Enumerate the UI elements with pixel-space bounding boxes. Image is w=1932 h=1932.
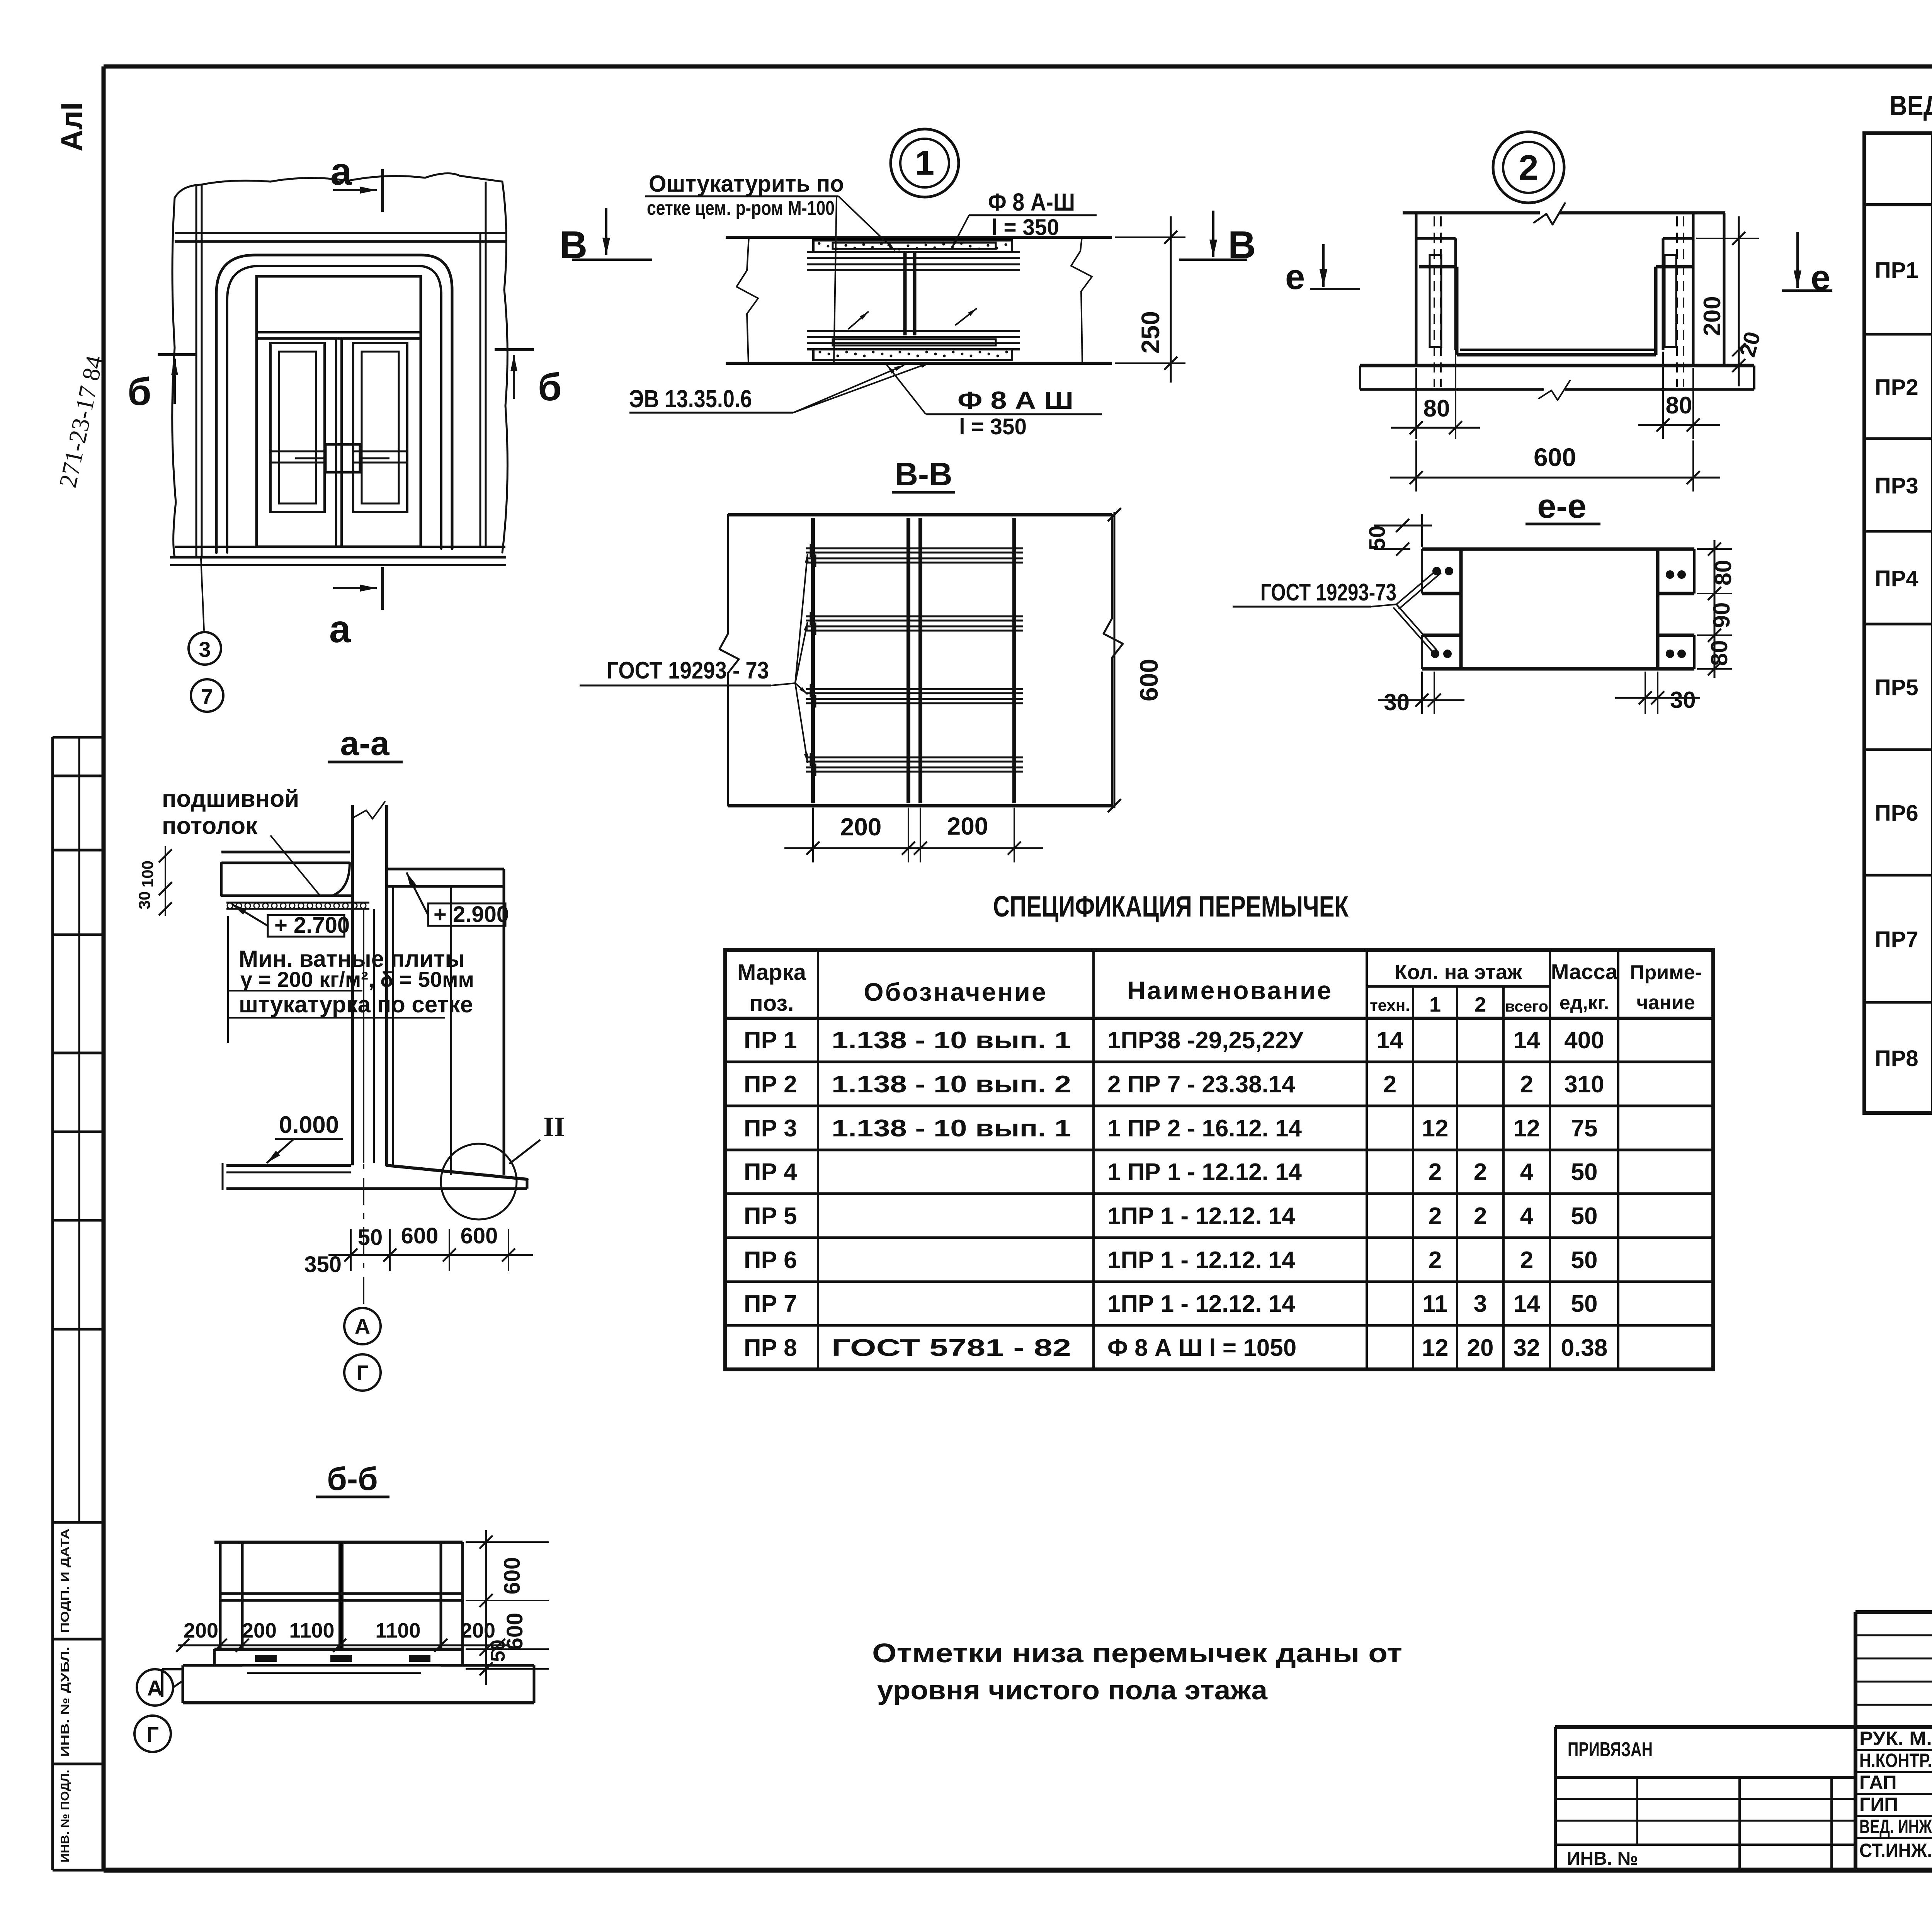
node 2 floor slab [1360, 364, 1754, 367]
door leaves [335, 338, 337, 547]
node 2 bubble [1493, 132, 1564, 203]
svg-text:поз.: поз. [750, 991, 794, 1016]
door surround arcs [216, 255, 452, 553]
svg-text:80: 80 [1666, 392, 1692, 419]
svg-text:12: 12 [1422, 1115, 1449, 1142]
svg-text:ГАП: ГАП [1859, 1772, 1897, 1793]
svg-text:80: 80 [1710, 560, 1736, 586]
svg-text:20: 20 [1467, 1335, 1494, 1361]
svg-text:0.000: 0.000 [279, 1112, 339, 1138]
svg-text:2: 2 [1520, 1247, 1533, 1274]
node 1 bottom flange [807, 330, 1020, 332]
svg-text:1.138 - 10 вып. 1: 1.138 - 10 вып. 1 [832, 1027, 1071, 1054]
svg-text:ПР 6: ПР 6 [744, 1247, 797, 1274]
B-B dims 200 [812, 808, 814, 862]
svg-text:ГОСТ 19293-73: ГОСТ 19293-73 [1260, 579, 1396, 606]
svg-text:12: 12 [1422, 1335, 1449, 1361]
e-e dim 50 [1421, 514, 1423, 547]
svg-text:14: 14 [1514, 1291, 1540, 1317]
svg-text:1ПР 1 - 12.12. 14: 1ПР 1 - 12.12. 14 [1107, 1203, 1295, 1230]
svg-text:400: 400 [1564, 1027, 1604, 1054]
svg-text:ПРИВЯЗАН: ПРИВЯЗАН [1568, 1738, 1653, 1761]
svg-text:ПР 2: ПР 2 [744, 1071, 797, 1098]
svg-text:ИНВ. №: ИНВ. № [1567, 1849, 1638, 1869]
svg-text:Обозначение: Обозначение [864, 978, 1047, 1006]
svg-text:ИНВ. № ПОДЛ.: ИНВ. № ПОДЛ. [59, 1770, 71, 1862]
svg-text:Наименование: Наименование [1127, 976, 1333, 1005]
svg-text:350: 350 [304, 1252, 342, 1277]
svg-text:75: 75 [1571, 1115, 1598, 1142]
door elevation rough wall outline [175, 173, 507, 553]
svg-text:а: а [329, 607, 351, 651]
a-a axis [363, 1128, 364, 1311]
svg-text:14: 14 [1514, 1027, 1540, 1054]
a-a right wall [387, 868, 504, 871]
svg-text:ВЕД. ИНЖ: ВЕД. ИНЖ [1859, 1816, 1932, 1837]
svg-text:50: 50 [1365, 526, 1390, 551]
svg-text:ГОСТ 19293 - 73: ГОСТ 19293 - 73 [607, 657, 769, 684]
door top lintel lines [175, 232, 505, 234]
svg-text:600: 600 [1534, 443, 1576, 471]
svg-text:ЭВ 13.35.0.6: ЭВ 13.35.0.6 [629, 385, 752, 413]
svg-text:200: 200 [840, 813, 882, 841]
svg-text:штукатурка по сетке: штукатурка по сетке [239, 992, 473, 1017]
svg-text:2: 2 [1475, 993, 1486, 1016]
svg-text:А: А [355, 1314, 370, 1338]
node 1 wall lines [726, 236, 1112, 239]
b-b shelf [220, 1592, 463, 1595]
svg-text:Отметки низа перемычек даны от: Отметки низа перемычек даны от [872, 1638, 1402, 1668]
b-b sill hatch [255, 1655, 277, 1662]
svg-text:4: 4 [1520, 1203, 1534, 1230]
section mark b left [158, 353, 196, 356]
svg-text:1100: 1100 [375, 1619, 420, 1642]
svg-text:1ПР38 -29,25,22У: 1ПР38 -29,25,22У [1107, 1027, 1304, 1054]
svg-text:ПР2: ПР2 [1875, 375, 1918, 400]
a-a mark +2.700 [268, 915, 344, 937]
section mark a top [381, 169, 384, 212]
spec table grid [725, 950, 1713, 1369]
node 2 U channel [1419, 265, 1457, 269]
svg-text:В: В [560, 223, 587, 267]
svg-text:50: 50 [1571, 1203, 1598, 1230]
svg-text:30: 30 [135, 891, 153, 910]
node 1 web [903, 252, 907, 335]
B-B bars [806, 548, 1023, 549]
node 1 lintel top flange [813, 240, 1012, 252]
svg-text:600: 600 [500, 1557, 525, 1595]
svg-text:30: 30 [1670, 687, 1696, 713]
svg-text:Масса: Масса [1551, 959, 1618, 984]
title block main grid [1855, 1610, 1932, 1614]
svg-text:1.138 - 10 вып. 2: 1.138 - 10 вып. 2 [832, 1071, 1071, 1098]
svg-text:подшивной: подшивной [162, 786, 299, 812]
svg-text:ГИП: ГИП [1859, 1794, 1898, 1815]
title block extension [1554, 1727, 1557, 1870]
svg-text:Кол. на этаж: Кол. на этаж [1395, 961, 1522, 984]
svg-text:Г: Г [146, 1722, 159, 1747]
svg-text:2: 2 [1429, 1247, 1442, 1274]
svg-text:200: 200 [461, 1619, 495, 1642]
svg-text:2: 2 [1474, 1203, 1487, 1230]
svg-text:2: 2 [1474, 1159, 1487, 1185]
svg-text:ПР1: ПР1 [1875, 258, 1918, 283]
svg-text:Ф 8 А Ш: Ф 8 А Ш [957, 386, 1073, 414]
svg-text:3: 3 [1474, 1291, 1487, 1317]
svg-text:ПР 5: ПР 5 [744, 1203, 797, 1230]
svg-text:ПР 1: ПР 1 [744, 1027, 797, 1054]
svg-text:1 ПР 1 - 12.12. 14: 1 ПР 1 - 12.12. 14 [1107, 1159, 1302, 1185]
svg-text:1 ПР 2 - 16.12. 14: 1 ПР 2 - 16.12. 14 [1107, 1115, 1302, 1142]
svg-text:е: е [1285, 257, 1305, 297]
svg-text:l = 350: l = 350 [959, 414, 1027, 439]
e-e dims 30 [1421, 672, 1423, 714]
svg-text:12: 12 [1514, 1115, 1540, 1142]
svg-text:30: 30 [1384, 689, 1410, 715]
e-e body [1461, 548, 1658, 551]
node 1 dim 250 [1115, 236, 1185, 238]
a-a mineral wool strip [226, 902, 369, 904]
svg-text:0.38: 0.38 [1561, 1335, 1608, 1361]
node 2 left post [1415, 213, 1418, 366]
b-b piers [219, 1542, 222, 1649]
svg-text:ПР 7: ПР 7 [744, 1291, 797, 1317]
svg-text:2: 2 [1520, 1071, 1533, 1098]
svg-text:1: 1 [1429, 993, 1441, 1016]
svg-text:АлI: АлI [54, 102, 88, 151]
svg-text:1.138 - 10 вып. 1: 1.138 - 10 вып. 1 [832, 1115, 1071, 1142]
svg-text:2: 2 [1429, 1203, 1442, 1230]
section mark b right [495, 348, 534, 351]
a-a dims bottom [350, 1229, 352, 1271]
b-b dims bottom [178, 1645, 510, 1646]
svg-text:3: 3 [199, 637, 211, 662]
svg-text:90: 90 [1709, 602, 1735, 628]
svg-text:600: 600 [461, 1223, 498, 1248]
node 2 hairpin rebar right [1665, 255, 1676, 347]
svg-text:1: 1 [915, 144, 934, 182]
svg-text:310: 310 [1564, 1071, 1604, 1098]
svg-text:50: 50 [1571, 1247, 1598, 1274]
svg-text:32: 32 [1514, 1335, 1540, 1361]
svg-text:Оштукатурить по: Оштукатурить по [649, 171, 844, 197]
node 1 rebar top [833, 243, 996, 249]
svg-text:ГОСТ 5781 - 82: ГОСТ 5781 - 82 [832, 1335, 1071, 1361]
svg-text:600: 600 [401, 1223, 439, 1248]
left stamp strip [51, 737, 54, 1870]
node 2 right post [1723, 213, 1726, 366]
b-b dims right [466, 1541, 549, 1543]
svg-text:б: б [538, 366, 562, 409]
svg-text:техн.: техн. [1370, 996, 1410, 1014]
svg-text:уровня чистого пола этажа: уровня чистого пола этажа [877, 1675, 1268, 1705]
svg-text:50: 50 [487, 1639, 509, 1662]
svg-text:ПОДП. И ДАТА: ПОДП. И ДАТА [59, 1529, 71, 1633]
svg-text:ПР 4: ПР 4 [744, 1159, 797, 1185]
svg-text:1ПР 1 - 12.12. 14: 1ПР 1 - 12.12. 14 [1107, 1291, 1295, 1317]
svg-text:250: 250 [1136, 311, 1165, 354]
node 2 hairpin rebar left [1430, 255, 1441, 347]
svg-text:Н.КОНТР.: Н.КОНТР. [1859, 1750, 1932, 1771]
svg-text:II: II [543, 1111, 565, 1142]
node 2 e mark right [1796, 232, 1799, 288]
B-B outline [728, 513, 1112, 517]
svg-text:е-е: е-е [1537, 487, 1586, 525]
svg-text:2: 2 [1429, 1159, 1442, 1185]
svg-text:РУК. М.: РУК. М. [1859, 1728, 1932, 1749]
svg-text:сетке цем. р-ром М-100: сетке цем. р-ром М-100 [647, 197, 835, 219]
door sill [175, 546, 505, 548]
svg-text:чание: чание [1636, 992, 1695, 1014]
svg-text:В-В: В-В [895, 456, 952, 492]
svg-text:2: 2 [1519, 148, 1538, 187]
svg-text:7: 7 [201, 684, 213, 709]
svg-text:200: 200 [1699, 296, 1726, 336]
node 2 dims 80 [1415, 368, 1417, 439]
svg-text:1ПР 1 - 12.12. 14: 1ПР 1 - 12.12. 14 [1107, 1247, 1295, 1274]
svg-text:200: 200 [947, 812, 988, 840]
svg-text:γ = 200 кг/м², δ = 50мм: γ = 200 кг/м², δ = 50мм [240, 967, 474, 992]
svg-text:80: 80 [1423, 395, 1450, 422]
sheet frame [104, 65, 1932, 69]
svg-text:А: А [147, 1676, 163, 1700]
svg-text:СПЕЦИФИКАЦИЯ ПЕРЕМЫЧЕК: СПЕЦИФИКАЦИЯ ПЕРЕМЫЧЕК [993, 890, 1349, 923]
svg-text:а-а: а-а [340, 724, 389, 762]
vedomost grid [1864, 133, 1932, 1113]
svg-text:ПР6: ПР6 [1875, 801, 1918, 826]
svg-text:1100: 1100 [289, 1619, 334, 1642]
svg-text:Г: Г [356, 1361, 369, 1385]
node 1 B mark right [1212, 211, 1214, 257]
svg-text:600: 600 [1134, 659, 1163, 701]
svg-text:ВЕДОМОСТЬ ПЕРЕМЫЧЕК: ВЕДОМОСТЬ ПЕРЕМЫЧЕК [1889, 90, 1932, 121]
a-a mark +2.900 [428, 903, 505, 926]
svg-text:а: а [330, 150, 352, 193]
svg-text:б: б [128, 370, 151, 413]
door left jamb [196, 185, 197, 556]
svg-text:2 ПР 7 - 23.38.14: 2 ПР 7 - 23.38.14 [1107, 1071, 1295, 1098]
door handle plate [325, 444, 360, 472]
svg-text:б-б: б-б [327, 1461, 378, 1497]
svg-text:всего: всего [1505, 998, 1548, 1015]
node 1 B mark left [605, 208, 607, 255]
node 1 rebar bottom [833, 339, 996, 345]
e-e right tabs [1658, 548, 1694, 551]
svg-text:50: 50 [358, 1225, 383, 1250]
svg-text:+ 2.700: + 2.700 [274, 913, 350, 938]
svg-text:200: 200 [242, 1619, 277, 1642]
section mark a bottom [381, 567, 384, 610]
a-a dims 30 100 left [165, 846, 166, 916]
svg-text:ПР5: ПР5 [1875, 675, 1918, 700]
door frame [257, 276, 421, 547]
svg-text:2: 2 [1383, 1071, 1396, 1098]
node 2 dim 600 [1415, 440, 1417, 492]
svg-text:Приме-: Приме- [1630, 961, 1702, 984]
svg-text:В: В [1228, 223, 1256, 267]
b-b axis circles [137, 1669, 173, 1706]
node 2 top wall [1403, 211, 1540, 214]
a-a column [351, 805, 354, 1165]
svg-text:ПР 3: ПР 3 [744, 1115, 797, 1142]
svg-text:11: 11 [1422, 1291, 1448, 1317]
svg-text:14: 14 [1377, 1027, 1403, 1054]
node 1 bubble [891, 129, 959, 197]
node 1 inner arrows [848, 311, 869, 329]
a-a ceiling slab [221, 851, 350, 854]
svg-text:Ф 8 А-Ш: Ф 8 А-Ш [988, 188, 1075, 216]
svg-text:50: 50 [1571, 1159, 1598, 1185]
e-e left tabs [1422, 548, 1461, 551]
a-a detail circle II [441, 1144, 517, 1219]
svg-text:потолок: потолок [162, 813, 258, 839]
svg-text:80: 80 [1706, 640, 1732, 666]
svg-text:ПР7: ПР7 [1875, 927, 1918, 952]
a-a floor [226, 1164, 351, 1167]
door right jamb [480, 233, 481, 547]
svg-text:Марка: Марка [737, 960, 806, 985]
svg-text:ПР4: ПР4 [1875, 566, 1918, 591]
B-B dim 600 [1114, 512, 1116, 808]
svg-text:ПР3: ПР3 [1875, 473, 1918, 498]
e-e rebar dots [1432, 567, 1441, 575]
e-e dims 80 90 80 [1697, 548, 1732, 550]
a-a axis circles [344, 1308, 381, 1344]
svg-text:ПР8: ПР8 [1875, 1046, 1918, 1071]
svg-text:Ф 8 А Ш l = 1050: Ф 8 А Ш l = 1050 [1107, 1335, 1296, 1361]
node 2 dim 20 [1732, 343, 1745, 356]
svg-text:50: 50 [1571, 1291, 1598, 1317]
svg-text:ПР 8: ПР 8 [744, 1335, 797, 1361]
svg-text:ед,кг.: ед,кг. [1560, 992, 1609, 1014]
b-b base [214, 1648, 463, 1651]
node 2 dim 200 [1696, 238, 1759, 239]
svg-text:100: 100 [138, 861, 156, 888]
svg-text:ИНВ. № ДУБЛ.: ИНВ. № ДУБЛ. [59, 1647, 71, 1757]
svg-text:+ 2.900: + 2.900 [434, 902, 509, 927]
svg-text:СТ.ИНЖ.: СТ.ИНЖ. [1859, 1840, 1932, 1861]
svg-text:4: 4 [1520, 1159, 1534, 1185]
b-b top [214, 1541, 463, 1544]
svg-text:200: 200 [184, 1619, 218, 1642]
leader circles 3 and 7 [201, 558, 204, 631]
